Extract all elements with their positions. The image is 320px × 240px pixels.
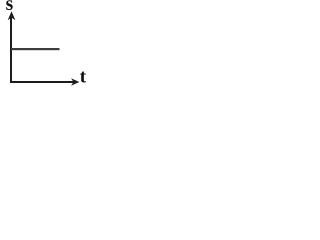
svg-text:s: s (6, 0, 14, 15)
t axis arrowhead (71, 78, 79, 86)
svg-text:t: t (80, 66, 87, 87)
graph line (constant s) (11, 48, 60, 50)
t axis (horizontal) wire (10, 81, 74, 83)
s axis (vertical) wire (10, 16, 12, 83)
s axis arrowhead (8, 11, 16, 20)
